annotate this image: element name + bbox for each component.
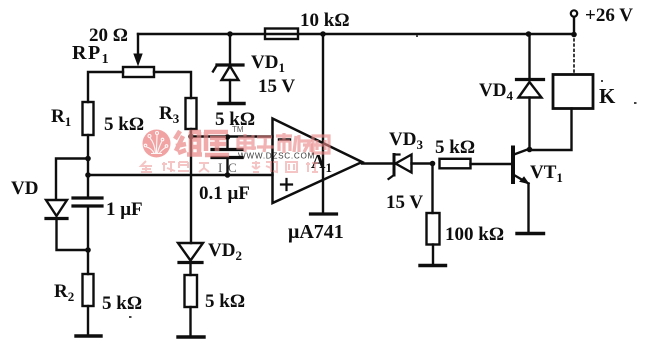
transistor VT1 collector [514,149,530,155]
watermark hanzi ku [204,132,229,155]
resistor R1 [83,102,94,135]
node junction VD-R2 [85,247,91,253]
wire 5k to base [471,163,512,165]
resistor R3 [186,98,197,129]
diode VD4 wire [528,34,530,78]
wire VD1 to ground [229,80,231,102]
ground op-amp [311,212,337,215]
wire pot left end to R1 top [88,72,123,102]
wire R2 to ground [87,306,89,335]
minus sign [279,138,290,141]
wire VD4 anode to collector node [528,98,530,151]
svg-text:5 kΩ: 5 kΩ [205,291,245,312]
wire VD2 to 5k [189,264,191,275]
wire op-amp output [362,162,393,164]
svg-text:5 kΩ: 5 kΩ [104,114,144,135]
op-amp power line through [322,34,324,213]
svg-text:5 kΩ: 5 kΩ [102,293,142,314]
svg-text:15 V: 15 V [258,76,295,97]
watermark center [141,125,329,175]
diode VD [46,200,67,216]
capacitor 0.1uF plates [212,148,242,151]
wire R3 to inverting node [190,129,192,137]
ground emitter [517,232,544,235]
plus sign [281,179,292,190]
node junction VD4 top [526,31,532,37]
wire to diode VD branch [56,159,88,200]
svg-text:TM: TM [232,125,244,134]
node junction R1-VD [85,156,91,162]
terminal +26V [573,17,575,34]
svg-text:100 kΩ: 100 kΩ [445,224,504,245]
capacitor 1uF plates [73,196,102,199]
ground VD2 branch [178,335,204,338]
resistor R2 [83,274,94,306]
wire VD3 to node [412,162,433,164]
watermark logo circle [143,130,171,158]
svg-text:1 μF: 1 μF [106,199,143,220]
wire noninverting to op-amp [88,174,273,176]
wire pot right end to R3 [154,72,191,98]
zener VD1 cathode bar [217,63,243,66]
svg-text:+26 V: +26 V [585,5,633,26]
wire inverting node down to VD2 [190,137,192,244]
ground VD1 [219,102,244,105]
potentiometer RP1 wiper arrow [137,34,139,55]
node junction VD3-5k-100k [430,161,436,167]
potentiometer RP1 body 20 ohm [123,67,154,77]
wire inverting node to op-amp [191,135,273,137]
resistor 100k [427,213,440,245]
wire node to capacitor C1 top [87,175,89,197]
wire node to 100k [431,164,433,214]
svg-text:C: C [228,160,237,175]
diode VD2 [178,243,203,261]
svg-text:K: K [599,84,616,108]
svg-text:VD: VD [11,178,38,199]
capacitor 0.1uF stub top [226,137,228,149]
svg-text:10 kΩ: 10 kΩ [300,10,350,31]
capacitor 0.1uF stub bottom [226,158,228,175]
wire cap bottom to lower node [87,208,89,275]
wire K bottom to collector [530,109,572,151]
node junction +26V [571,32,577,38]
zener VD1 triangle [222,66,239,80]
watermark hanzi dian zi shi chang wang [238,133,329,153]
node junction inverting [188,134,194,140]
svg-text:μA741: μA741 [288,221,344,243]
resistor 5k base [440,159,471,169]
wire emitter to ground [527,184,529,233]
node junction noninverting [85,172,91,178]
watermark row quan qiu zui da IC cai gou wang zhan [141,161,318,172]
svg-text:5 kΩ: 5 kΩ [435,137,475,158]
ground 100k [420,264,446,267]
node junction feedback [320,31,326,37]
svg-text:0.1 μF: 0.1 μF [199,183,250,204]
resistor 10k [265,29,298,40]
transistor VT1 emitter [514,175,529,184]
resistor 5k below VD2 [185,275,198,307]
svg-text:15 V: 15 V [386,192,423,213]
wire 5k to ground [189,307,191,336]
transistor VT1 base bar [511,148,515,183]
diode VD4 triangle [519,82,542,98]
wire 100k to ground [432,245,434,265]
op-amp A1 triangle [273,119,363,204]
wire VD1 branch [229,34,231,63]
svg-text:WWW.DZSC.COM: WWW.DZSC.COM [238,152,315,161]
dotted wire to relay K [573,39,575,73]
diode VD4 cathode bar [517,78,544,81]
node junction collector [527,147,533,153]
svg-text:I: I [218,160,222,175]
watermark hanzi wei [175,131,229,155]
ground R2 [76,334,101,337]
wire R1 bottom to divider node [87,135,89,175]
scan noise specks [129,35,637,318]
zener VD3 triangle [396,155,412,173]
relay K box [553,75,593,109]
wire VD bottom to node [57,220,89,250]
zener VD3 cathode bar [393,155,396,176]
wire top rail from wiper to +26V corner [138,33,574,35]
